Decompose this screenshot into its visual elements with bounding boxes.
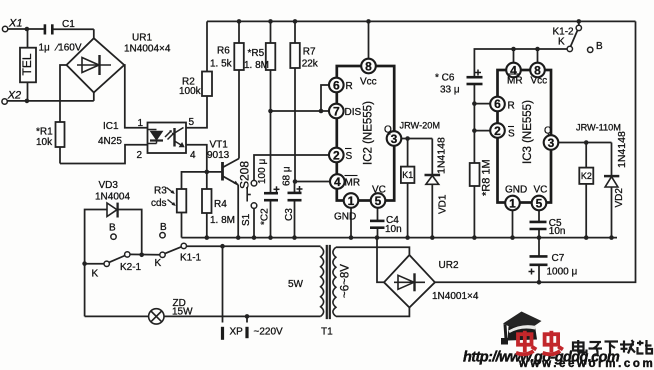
svg-text:JRW-20M: JRW-20M (400, 121, 441, 131)
svg-text:B: B (596, 41, 603, 52)
svg-text:K2-1: K2-1 (120, 262, 142, 273)
svg-text:1μ: 1μ (39, 43, 51, 54)
svg-text:S1: S1 (241, 213, 252, 226)
svg-text:B: B (160, 222, 167, 233)
svg-text:VT1: VT1 (210, 140, 229, 151)
svg-text:K: K (558, 37, 565, 48)
svg-text:2: 2 (494, 124, 501, 138)
svg-text:100 μ: 100 μ (257, 159, 268, 184)
svg-text:XP: XP (230, 327, 244, 338)
svg-text:S: S (508, 129, 515, 140)
svg-text:1: 1 (509, 196, 516, 210)
svg-text:R: R (508, 101, 515, 112)
svg-text:1N4148: 1N4148 (436, 137, 448, 174)
svg-text:4: 4 (510, 63, 517, 77)
svg-text:10k: 10k (36, 137, 53, 148)
svg-text:4: 4 (334, 175, 341, 189)
svg-text:C7: C7 (552, 253, 565, 264)
svg-text:C1: C1 (62, 19, 75, 30)
svg-text:VD1: VD1 (438, 194, 449, 214)
svg-text:K: K (155, 258, 162, 269)
svg-text:4N25: 4N25 (98, 136, 122, 147)
svg-text:S208: S208 (238, 161, 252, 189)
svg-text:33 μ: 33 μ (440, 85, 460, 96)
svg-text:1. 8M: 1. 8M (244, 60, 269, 71)
svg-text:GND: GND (334, 212, 356, 223)
svg-text:R: R (346, 81, 353, 92)
svg-text:1N4001×4: 1N4001×4 (432, 291, 479, 302)
svg-text:C3: C3 (284, 208, 295, 221)
svg-text:VD2: VD2 (614, 188, 625, 208)
svg-text:~220V: ~220V (254, 327, 284, 338)
svg-text:*R8 1M: *R8 1M (481, 159, 493, 196)
svg-text:1000 μ: 1000 μ (547, 267, 578, 278)
svg-text:cds: cds (151, 198, 167, 209)
svg-text:K1-1: K1-1 (180, 253, 202, 264)
svg-text:VC: VC (534, 185, 548, 196)
svg-text:5: 5 (536, 196, 543, 210)
svg-text:R7: R7 (303, 47, 316, 58)
svg-text:S: S (346, 151, 353, 162)
svg-text:R4: R4 (214, 199, 227, 210)
svg-text:3: 3 (391, 132, 398, 146)
svg-text:JRW-110M: JRW-110M (576, 123, 621, 133)
svg-text:10n: 10n (549, 226, 566, 237)
svg-text:1: 1 (138, 118, 144, 129)
svg-text:X2: X2 (7, 90, 21, 102)
svg-text:IC1: IC1 (103, 121, 119, 132)
svg-text:TEL: TEL (20, 53, 34, 75)
svg-text:Vcc: Vcc (360, 77, 377, 88)
svg-text:1. 8M: 1. 8M (210, 215, 235, 226)
svg-text:VD3: VD3 (99, 180, 119, 191)
svg-text:DIS: DIS (345, 107, 362, 118)
svg-text:1: 1 (348, 194, 355, 208)
svg-text:3: 3 (548, 136, 555, 150)
svg-text:6: 6 (333, 78, 340, 92)
svg-text:8: 8 (534, 63, 541, 77)
svg-text:UR1: UR1 (132, 33, 152, 44)
svg-text:22k: 22k (302, 59, 319, 70)
svg-text:GND: GND (505, 185, 527, 196)
svg-text:K: K (92, 269, 99, 280)
svg-text:UR2: UR2 (439, 260, 459, 271)
svg-text:~6~8V: ~6~8V (340, 264, 352, 298)
svg-text:4: 4 (190, 150, 196, 161)
svg-text:R3: R3 (154, 186, 167, 197)
svg-text:*C2: *C2 (260, 208, 271, 225)
svg-text:R6: R6 (217, 46, 230, 57)
svg-text:7: 7 (333, 104, 340, 118)
svg-text:5: 5 (375, 194, 382, 208)
svg-text:IC2 (NE555): IC2 (NE555) (363, 101, 375, 165)
svg-text:⁄160V: ⁄160V (54, 43, 82, 54)
svg-text:* C6: * C6 (435, 73, 455, 84)
svg-text:*R1: *R1 (36, 127, 53, 138)
svg-text:8: 8 (365, 59, 372, 73)
svg-text:2: 2 (137, 150, 143, 161)
svg-text:1N4148: 1N4148 (616, 131, 628, 168)
svg-text:5: 5 (189, 117, 195, 128)
svg-text:www.eeworm.com: www.eeworm.com (518, 358, 654, 370)
svg-text:6: 6 (494, 97, 501, 111)
svg-text:*R5: *R5 (248, 48, 265, 59)
svg-text:B: B (109, 223, 116, 234)
svg-text:K2: K2 (581, 171, 592, 181)
svg-text:1. 5k: 1. 5k (210, 59, 233, 70)
svg-text:2: 2 (333, 148, 340, 162)
svg-text:K1: K1 (402, 170, 413, 180)
svg-text:5W: 5W (288, 279, 304, 290)
svg-text:9013: 9013 (207, 150, 230, 161)
svg-text:MR: MR (345, 178, 361, 189)
svg-text:100k: 100k (179, 86, 202, 97)
svg-text:IC3 (NE555): IC3 (NE555) (522, 100, 534, 164)
svg-text:1N4004×4: 1N4004×4 (124, 44, 171, 55)
svg-text:T1: T1 (321, 327, 333, 338)
svg-text:10n: 10n (385, 224, 402, 235)
svg-text:1N4004: 1N4004 (95, 192, 130, 203)
svg-text:68 μ: 68 μ (282, 166, 293, 186)
svg-text:X1: X1 (8, 18, 22, 30)
svg-text:15W: 15W (172, 307, 193, 318)
